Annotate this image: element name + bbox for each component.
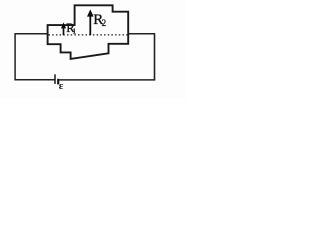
wire: left vertical of loop [14,33,16,80]
wire: top-right horizontal from block to loop [128,33,156,35]
dotted conductor line through block (node between wires) [49,34,128,36]
background paper [0,0,186,99]
svg-text:1: 1 [72,27,76,36]
wire: bottom-right horizontal from battery to right side [59,79,155,81]
resistor block outline (stepped boxes housing R1 and R2) [48,5,129,59]
svg-text:ε: ε [59,80,64,92]
resistor R1 arrow (short, inside left box) [61,22,66,35]
wire: bottom-left horizontal to battery [15,79,55,81]
wire: top-left horizontal from loop to block [15,33,49,35]
wire: right vertical of loop [154,33,156,80]
svg-text:2: 2 [102,18,107,28]
resistor R2 arrow (tall, inside middle box) [87,9,94,35]
battery cell: short thick plate (negative) [57,79,59,85]
battery cell: long plate (positive) [54,74,56,84]
